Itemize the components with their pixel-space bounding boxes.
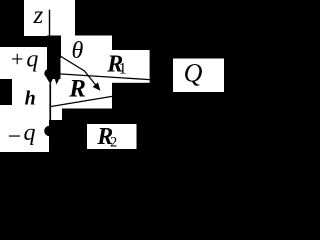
svg-text:q: q [24, 120, 36, 146]
white patch: R2 label box [87, 124, 137, 149]
svg-text:Q: Q [184, 59, 203, 88]
theta angle line from axis [52, 51, 96, 86]
white patch: Q label box [173, 59, 224, 93]
svg-text:1: 1 [119, 60, 127, 77]
arrowhead of h vector (pointing down from +q) [46, 77, 54, 85]
svg-text:θ: θ [72, 38, 84, 64]
black gap wedge below column [55, 72, 61, 85]
charge +q dot [44, 69, 53, 78]
white patch: left sliver below h black rect [0, 105, 12, 120]
line R from dipole centre toward Q [50, 96, 112, 106]
line R1 from +q toward Q [54, 74, 150, 80]
black gap column between +q box and theta box [47, 36, 61, 59]
svg-text:h: h [25, 88, 36, 110]
arrowhead of R annotation arrow [93, 82, 101, 90]
svg-text:z: z [33, 2, 44, 29]
white patch: -q label box [0, 120, 49, 152]
svg-text:q: q [26, 46, 38, 72]
white patch: +q label box [0, 47, 47, 79]
white patch: R1 label box [112, 50, 150, 83]
white patch: z-axis label box [24, 0, 75, 36]
svg-text:2: 2 [110, 135, 117, 151]
svg-text:+: + [10, 47, 25, 72]
white patch: h / mid band left [12, 79, 62, 120]
h vector line (z axis between charges) [49, 84, 51, 127]
svg-text:R: R [68, 75, 86, 102]
charge -q dot [44, 126, 54, 136]
svg-text:−: − [6, 124, 22, 150]
white patch: theta / upper-middle box [61, 36, 113, 109]
z axis line [49, 10, 50, 36]
